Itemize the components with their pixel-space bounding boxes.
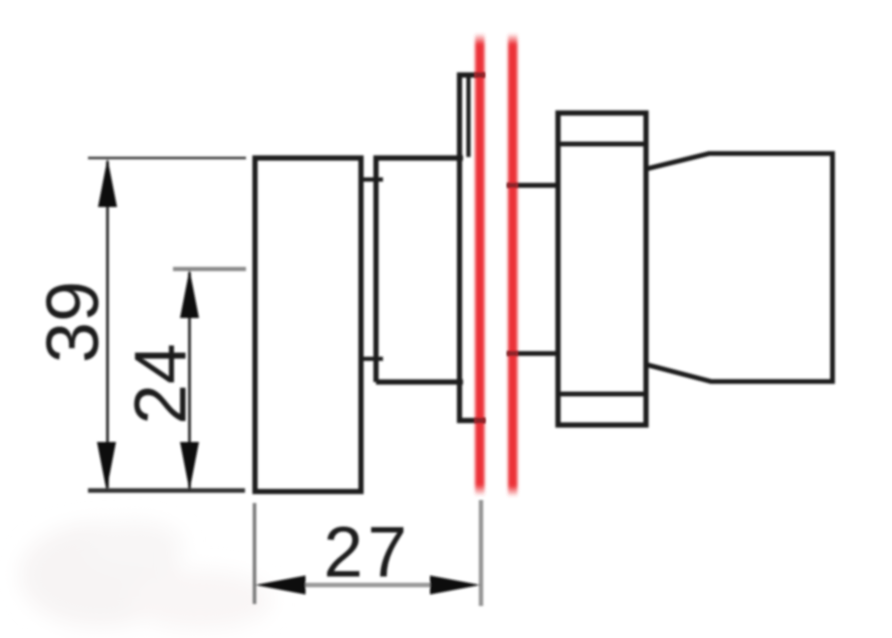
shoulder tick top bbox=[359, 177, 383, 181]
dim line 39 bbox=[106, 161, 109, 488]
svg-text:39: 39 bbox=[31, 281, 114, 363]
nut block bbox=[558, 113, 646, 425]
faint smudge bottom-left bbox=[20, 521, 272, 630]
arrow 39 up bbox=[98, 159, 117, 208]
arrow 24 down bbox=[180, 442, 199, 491]
dim line 24 bbox=[188, 272, 191, 488]
panel red line 1 bbox=[475, 33, 484, 496]
shoulder tick bottom bbox=[359, 357, 383, 361]
dim extension bottom bbox=[88, 488, 245, 493]
svg-text:24: 24 bbox=[121, 343, 202, 424]
svg-text:27: 27 bbox=[324, 514, 412, 593]
arrow 24 up bbox=[180, 270, 199, 319]
dim 27 right extension bbox=[479, 500, 483, 606]
collar bbox=[376, 158, 463, 382]
dark overlaps where black passes under red bbox=[475, 73, 517, 424]
button cap bbox=[255, 158, 361, 492]
arrow 27 right bbox=[430, 576, 481, 595]
arrow 39 down bbox=[97, 442, 116, 491]
dim 39 extension top bbox=[88, 157, 246, 159]
rear body bbox=[646, 154, 833, 382]
dim 24 extension bbox=[173, 267, 246, 271]
flange bbox=[457, 73, 462, 424]
arrow 27 left bbox=[255, 576, 306, 595]
dim 27 left extension bbox=[253, 503, 257, 604]
shaft lines through panel bbox=[507, 183, 560, 188]
panel red line 2 bbox=[508, 33, 517, 497]
dim line 27 bbox=[300, 583, 436, 588]
